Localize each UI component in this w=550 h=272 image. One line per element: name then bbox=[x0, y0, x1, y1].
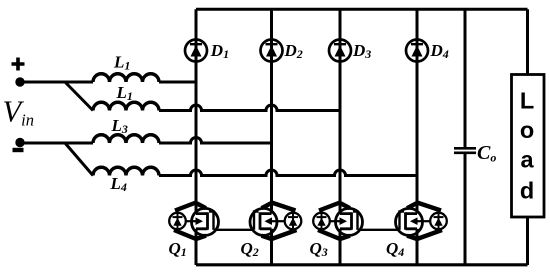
node + input terminal dot bbox=[15, 77, 24, 86]
svg-text:L1: L1 bbox=[113, 52, 130, 72]
wire phase line 2 bottom stub bbox=[270, 229, 273, 265]
wire fork diagonal to L4 bbox=[65, 143, 93, 176]
wire load branch top bbox=[526, 9, 529, 74]
wire phase line 3 bottom stub bbox=[339, 229, 342, 265]
svg-text:D3: D3 bbox=[352, 41, 371, 61]
wire top rail bbox=[196, 8, 528, 11]
transistor Q1 bbox=[169, 203, 218, 240]
body diode of Q3 bbox=[313, 213, 330, 230]
wire input - to L3 bbox=[20, 142, 93, 145]
body diode of Q2 bbox=[285, 213, 302, 230]
bracket wires Q3 bbox=[319, 203, 350, 211]
node - input terminal dot bbox=[15, 138, 24, 147]
inductor L2 (labelled L1) bbox=[93, 102, 159, 110]
label Load bbox=[520, 88, 535, 204]
wire output capacitor branch top bbox=[464, 9, 467, 148]
wire input + to L1 bbox=[20, 81, 93, 84]
svg-text:Q1: Q1 bbox=[169, 239, 187, 259]
svg-text:Q2: Q2 bbox=[241, 239, 259, 259]
diode D2 bbox=[261, 40, 283, 62]
wire L3 to node 2 with hop over line 1 bbox=[159, 138, 272, 144]
mosfet circle Q3 bbox=[336, 208, 363, 235]
inductor L3 bbox=[93, 135, 159, 143]
wire phase line 1 bottom stub bbox=[195, 229, 198, 265]
svg-text:L1: L1 bbox=[116, 83, 133, 103]
svg-text:d: d bbox=[520, 178, 534, 204]
bracket wires Q2 bbox=[262, 203, 296, 211]
svg-text:D2: D2 bbox=[284, 41, 303, 61]
svg-text:D1: D1 bbox=[210, 41, 229, 61]
wire phase line 1 (D1/Q1 branch) bbox=[195, 9, 198, 213]
wire gate link Q1-Q2 bbox=[214, 229, 255, 231]
svg-text:Q4: Q4 bbox=[386, 239, 404, 259]
wire phase line 3 (D3/Q3 branch) bbox=[339, 9, 342, 213]
label - sign bbox=[13, 148, 24, 152]
label + sign bbox=[12, 58, 25, 71]
svg-text:L4: L4 bbox=[110, 174, 127, 194]
diode D3 bbox=[329, 40, 351, 62]
wire L1 to node 1 bbox=[159, 81, 196, 84]
capacitor Co bbox=[454, 148, 476, 153]
svg-text:o: o bbox=[520, 117, 534, 143]
wire fork diagonal to L2 bbox=[65, 82, 93, 111]
wire phase line 4 (D4/Q4 branch) bbox=[416, 9, 419, 213]
wire L4 to node 4 with hops over lines 1,2,3 bbox=[159, 170, 417, 176]
wire gate link Q3-Q4 bbox=[358, 229, 400, 231]
body diode of Q4 bbox=[430, 213, 447, 230]
diode D1 bbox=[185, 40, 207, 62]
svg-text:Q3: Q3 bbox=[310, 239, 328, 259]
wire bottom rail bbox=[196, 263, 528, 266]
mosfet circle Q1 bbox=[192, 208, 219, 235]
transistor Q3 bbox=[313, 203, 362, 240]
bracket wires Q4 bbox=[407, 203, 441, 211]
wire output capacitor branch bottom bbox=[464, 153, 467, 265]
load box bbox=[512, 75, 545, 218]
transistor Q2 bbox=[250, 203, 301, 240]
wire phase line 4 bottom stub bbox=[416, 229, 419, 265]
svg-text:D4: D4 bbox=[430, 41, 449, 61]
mosfet circle Q4 bbox=[396, 208, 423, 235]
svg-text:Co: Co bbox=[477, 142, 496, 165]
wire phase line 2 (D2/Q2 branch) bbox=[270, 9, 273, 213]
inductor L4 bbox=[93, 167, 159, 175]
bracket wires Q1 bbox=[175, 203, 206, 211]
svg-text:L3: L3 bbox=[111, 116, 128, 136]
transistor Q4 bbox=[396, 203, 447, 240]
wire load branch bottom bbox=[526, 217, 529, 265]
wire L2 to node 3 with hops over lines 1 and 2 bbox=[159, 105, 340, 110]
body diode of Q1 bbox=[169, 213, 186, 230]
svg-text:Vin: Vin bbox=[3, 95, 34, 130]
diode D4 bbox=[406, 40, 428, 62]
svg-text:L: L bbox=[520, 88, 534, 114]
inductor L1 bbox=[93, 74, 159, 82]
mosfet circle Q2 bbox=[250, 208, 277, 235]
svg-text:a: a bbox=[520, 147, 534, 173]
